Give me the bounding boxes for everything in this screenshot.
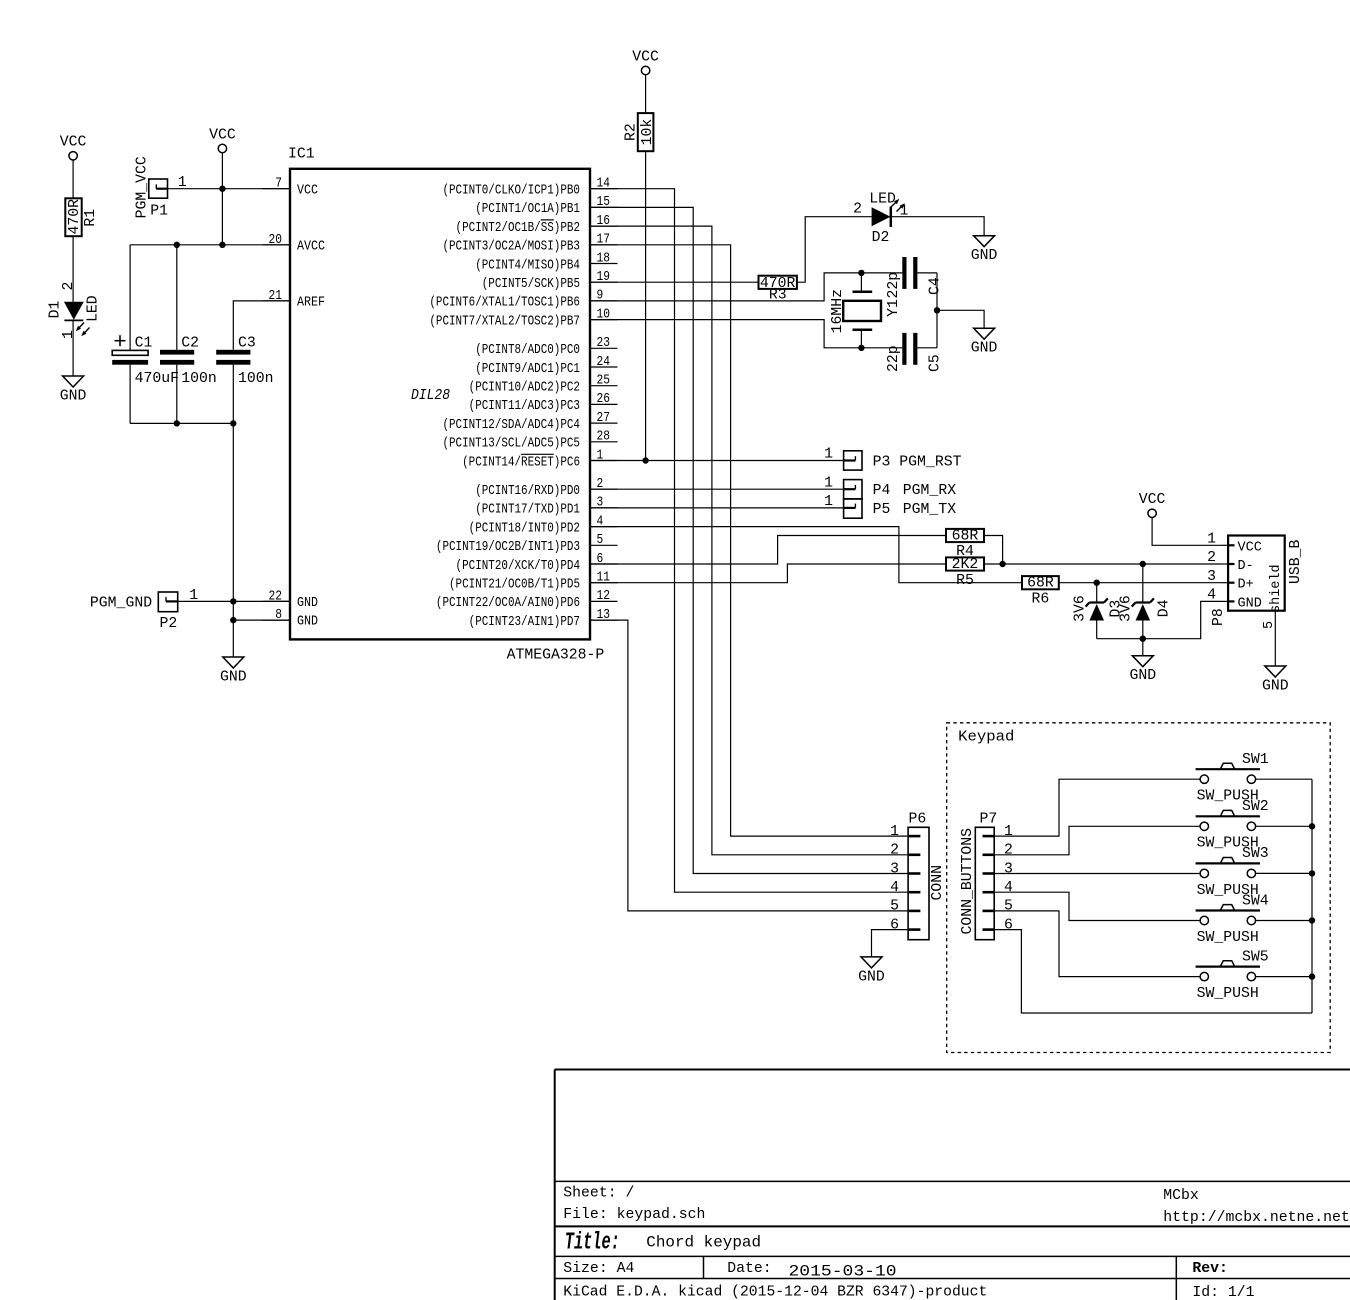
switch SW4 SW_PUSH <box>1196 893 1312 946</box>
wire PB3 to P6 pin1 <box>590 245 908 836</box>
IC1 pin 6 PD4 <box>456 552 618 574</box>
junction GND pin22 <box>230 598 236 604</box>
junction C2 top <box>174 242 180 248</box>
svg-text:(PCINT12/SDA/ADC4)PC4: (PCINT12/SDA/ADC4)PC4 <box>442 418 580 433</box>
svg-text:2: 2 <box>1207 550 1216 566</box>
IC1 pin 4 PD2 <box>469 514 618 536</box>
title block size/date <box>563 1261 896 1281</box>
svg-text:P5: P5 <box>873 502 891 518</box>
LED D1 <box>48 282 102 339</box>
svg-text:CONN: CONN <box>930 865 946 901</box>
connector P1 PGM_VCC <box>135 156 187 219</box>
svg-text:SW_PUSH: SW_PUSH <box>1197 930 1259 946</box>
wire P7 pin4 to SW4 <box>994 892 1200 920</box>
wire C4 to GND rail <box>917 272 937 274</box>
svg-text:GND: GND <box>60 389 87 405</box>
svg-text:Size: A4: Size: A4 <box>563 1261 634 1277</box>
capacitor C2 100n <box>160 336 217 388</box>
IC1 pin 13 PD7 <box>469 608 618 630</box>
svg-text:(PCINT2/OC1B/SS)PB2: (PCINT2/OC1B/SS)PB2 <box>456 221 580 236</box>
wire C3 bottom <box>232 365 234 424</box>
svg-text:(PCINT0/CLKO/ICP1)PB0: (PCINT0/CLKO/ICP1)PB0 <box>442 184 580 199</box>
resistor R5 2K2 <box>946 557 984 589</box>
IC1 pin 23 PC0 <box>475 336 617 358</box>
svg-text:D1: D1 <box>48 301 64 319</box>
junction zener gnd <box>1140 636 1146 642</box>
IC1 pin 5 PD3 <box>436 533 618 555</box>
crystal Y1 16MHz <box>830 273 902 348</box>
ground symbol (shield) <box>1262 666 1289 695</box>
IC1 pin 28 PC5 <box>442 430 617 452</box>
svg-text:P2: P2 <box>160 616 178 632</box>
svg-text:P7: P7 <box>980 812 998 828</box>
ground symbol (IC) <box>220 657 247 686</box>
wire R2 to RESET <box>645 151 647 460</box>
connector P8 USB_B <box>1207 532 1304 630</box>
wire P7 pin5 to SW5 <box>994 911 1200 977</box>
svg-text:VCC: VCC <box>297 183 318 198</box>
wire PD5 to R5 <box>590 564 946 583</box>
wire P7 pin6 to rail <box>994 930 1312 1013</box>
svg-text:22p: 22p <box>886 272 902 299</box>
wire PD1 to P5 <box>590 507 844 509</box>
svg-text:Sheet: /: Sheet: / <box>563 1186 634 1202</box>
svg-text:5: 5 <box>1004 899 1013 915</box>
wire PD4 to R4 <box>590 536 946 565</box>
svg-text:4: 4 <box>1207 588 1216 604</box>
svg-text:1: 1 <box>1207 532 1216 548</box>
svg-text:(PCINT17/TXD)PD1: (PCINT17/TXD)PD1 <box>475 503 580 518</box>
svg-text:PGM_RST: PGM_RST <box>899 455 961 471</box>
svg-text:C2: C2 <box>181 336 199 352</box>
svg-text:1: 1 <box>890 824 899 840</box>
svg-text:GND: GND <box>1129 668 1156 684</box>
svg-text:PGM_VCC: PGM_VCC <box>135 156 151 218</box>
svg-text:P1: P1 <box>150 204 168 220</box>
junction GND pin8 <box>230 617 236 623</box>
svg-text:6: 6 <box>1004 917 1013 933</box>
wire P1 to IC pin 7 <box>168 188 291 190</box>
svg-text:22: 22 <box>269 589 283 604</box>
svg-text:DIL28: DIL28 <box>411 388 450 404</box>
wire VCC to R1 <box>72 160 74 199</box>
IC1 pin 19 PB5 <box>482 270 618 292</box>
svg-text:shield: shield <box>1269 564 1284 613</box>
svg-text:SW_PUSH: SW_PUSH <box>1197 986 1259 1002</box>
svg-text:(PCINT7/XTAL2/TOSC2)PB7: (PCINT7/XTAL2/TOSC2)PB7 <box>429 314 580 329</box>
svg-text:D+: D+ <box>1238 578 1254 593</box>
svg-text:VCC: VCC <box>60 135 87 151</box>
wire D1 to GND <box>72 320 74 376</box>
IC1 pin 14 PB0 <box>442 177 617 199</box>
svg-text:R1: R1 <box>83 209 99 227</box>
svg-text:1: 1 <box>824 494 833 510</box>
svg-text:GND: GND <box>297 615 318 630</box>
svg-text:P6: P6 <box>909 812 927 828</box>
wire P2 to IC pin 22 <box>178 600 290 602</box>
ground symbol (D2) <box>971 236 998 265</box>
resistor R2 10k <box>624 113 656 151</box>
svg-text:Keypad: Keypad <box>958 729 1014 745</box>
junction crystal bottom <box>858 345 864 351</box>
svg-text:PGM_TX: PGM_TX <box>903 502 956 518</box>
wire PB1 to P6 pin3 <box>590 207 908 873</box>
svg-text:VCC: VCC <box>209 127 236 143</box>
IC1 pin 1 PC6 <box>462 448 617 470</box>
svg-text:PGM_GND: PGM_GND <box>90 596 152 612</box>
resistor R3 470R <box>759 276 797 304</box>
svg-text:R6: R6 <box>1032 592 1050 608</box>
svg-text:24: 24 <box>597 355 611 370</box>
ground symbol (crystal) <box>971 328 998 357</box>
IC1 pin 3 PD1 <box>475 496 617 518</box>
connector P6 CONN <box>890 812 946 940</box>
svg-text:12: 12 <box>597 589 611 604</box>
ground symbol (P6) <box>858 957 885 986</box>
svg-text:D2: D2 <box>872 230 890 246</box>
svg-text:2015-03-10: 2015-03-10 <box>789 1262 897 1280</box>
svg-text:SW4: SW4 <box>1242 893 1269 909</box>
zener diode D4 3V6 <box>1119 564 1173 639</box>
svg-text:GND: GND <box>858 969 885 985</box>
svg-text:CONN_BUTTONS: CONN_BUTTONS <box>960 828 976 935</box>
resistor R1 470R <box>65 198 99 236</box>
svg-text:(PCINT8/ADC0)PC0: (PCINT8/ADC0)PC0 <box>475 343 580 358</box>
wire to crystal gnd symbol <box>937 310 984 328</box>
svg-text:5: 5 <box>890 899 899 915</box>
IC1 pin 22 GND <box>263 589 319 611</box>
switch SW5 SW_PUSH <box>1196 949 1312 1002</box>
svg-text:PGM_RX: PGM_RX <box>903 483 956 499</box>
wire PB5 to R3 <box>590 281 759 283</box>
ground symbol (D1) <box>60 376 87 405</box>
svg-text:26: 26 <box>597 392 611 407</box>
wire P6 pin6 to GND <box>872 930 909 957</box>
capacitor C5 22p <box>886 333 944 372</box>
connector P3 PGM_RST <box>824 447 961 471</box>
junction VCC/AVCC rail <box>219 242 225 248</box>
wire AREF to C3 <box>233 301 290 350</box>
svg-text:Title:: Title: <box>565 1230 620 1257</box>
wire PD7 to P6 pin5 <box>590 620 908 911</box>
svg-text:C5: C5 <box>928 354 944 372</box>
wire RESET to P3 <box>590 460 844 462</box>
title block title <box>565 1230 761 1257</box>
svg-text:LED: LED <box>869 192 896 208</box>
IC1 pin 17 PB3 <box>442 233 617 255</box>
svg-text:(PCINT23/AIN1)PD7: (PCINT23/AIN1)PD7 <box>469 615 580 630</box>
svg-text:http://mcbx.netne.net: http://mcbx.netne.net <box>1163 1210 1349 1226</box>
connector P7 CONN_BUTTONS <box>960 812 1013 940</box>
IC1 pin 7 VCC <box>263 177 319 199</box>
junction crystal top <box>858 270 864 276</box>
svg-text:470R: 470R <box>67 199 83 235</box>
svg-text:1: 1 <box>1004 824 1013 840</box>
svg-text:GND: GND <box>971 341 998 357</box>
svg-text:GND: GND <box>1262 679 1289 695</box>
svg-text:23: 23 <box>597 336 611 351</box>
wire D2 to GND <box>892 217 984 236</box>
svg-text:File: keypad.sch: File: keypad.sch <box>563 1207 705 1223</box>
svg-text:3: 3 <box>1207 569 1216 585</box>
connector P2 PGM_GND <box>90 588 198 632</box>
connector P4 PGM_RX <box>824 475 956 499</box>
junction D4/D- <box>1140 561 1146 567</box>
switch SW3 SW_PUSH <box>1196 846 1312 899</box>
svg-text:3: 3 <box>890 861 899 877</box>
svg-text:4: 4 <box>890 880 899 896</box>
wire R1 to D1 <box>72 236 74 302</box>
svg-text:Date:: Date: <box>727 1261 771 1277</box>
title block company <box>1163 1188 1349 1226</box>
wire ground drop <box>232 423 234 657</box>
wire IC pin 8 <box>233 619 290 621</box>
wire C1 bottom <box>129 365 131 424</box>
wire AVCC rail <box>130 244 290 246</box>
IC1 pin 12 PD6 <box>436 589 618 611</box>
svg-text:MCbx: MCbx <box>1163 1188 1199 1204</box>
svg-text:(PCINT14/RESET)PC6: (PCINT14/RESET)PC6 <box>462 455 580 470</box>
svg-text:AVCC: AVCC <box>297 239 325 254</box>
IC1 pin 27 PC4 <box>442 411 617 433</box>
svg-text:R5: R5 <box>956 573 974 589</box>
svg-text:3V6: 3V6 <box>1119 595 1135 622</box>
svg-text:68R: 68R <box>952 529 979 545</box>
svg-text:2: 2 <box>853 202 862 218</box>
svg-text:2K2: 2K2 <box>952 557 979 573</box>
IC1 pin 20 AVCC <box>263 233 326 255</box>
LED D2 <box>853 192 908 247</box>
wire to gnd (zeners) <box>1142 639 1144 656</box>
title block sheet info <box>563 1186 705 1223</box>
svg-text:1: 1 <box>824 475 833 491</box>
svg-text:3V6: 3V6 <box>1073 595 1089 622</box>
resistor R4 68R <box>946 529 984 561</box>
junction P1/VCC <box>219 186 225 192</box>
IC1 pin 9 PB6 <box>429 289 617 311</box>
junction C2 bottom <box>174 420 180 426</box>
wire zener gnd rail <box>1097 601 1221 638</box>
wire switch rail <box>1311 779 1313 1013</box>
svg-text:D-: D- <box>1238 559 1254 574</box>
svg-text:470uF: 470uF <box>135 371 179 387</box>
wire C2 bottom <box>176 365 178 424</box>
svg-text:GND: GND <box>1238 596 1262 611</box>
svg-text:10k: 10k <box>640 119 656 146</box>
wire PD2 to R6 <box>590 527 1022 583</box>
svg-text:(PCINT4/MISO)PB4: (PCINT4/MISO)PB4 <box>475 258 580 273</box>
capacitor C4 22p <box>886 257 944 299</box>
wire XTAL1 to crystal <box>590 273 902 301</box>
svg-text:(PCINT22/OC0A/AIN0)PD6: (PCINT22/OC0A/AIN0)PD6 <box>436 596 580 611</box>
svg-text:1: 1 <box>61 330 77 339</box>
IC1 pin 21 AREF <box>263 289 326 311</box>
svg-text:18: 18 <box>597 251 611 266</box>
power symbol VCC (R2) <box>632 49 659 74</box>
svg-text:(PCINT13/SCL/ADC5)PC5: (PCINT13/SCL/ADC5)PC5 <box>442 437 580 452</box>
wire P7 pin1 to SW1 <box>994 779 1200 836</box>
wire crystal cap gnd <box>936 273 938 348</box>
svg-text:(PCINT1/OC1A)PB1: (PCINT1/OC1A)PB1 <box>475 202 580 217</box>
switch SW2 SW_PUSH <box>1196 799 1312 852</box>
svg-text:3: 3 <box>1004 861 1013 877</box>
svg-text:USB_B: USB_B <box>1288 539 1304 584</box>
wire PB2 to P6 pin2 <box>590 226 908 855</box>
svg-text:Y1: Y1 <box>886 299 902 317</box>
svg-text:Chord keypad: Chord keypad <box>646 1234 761 1252</box>
svg-text:SW5: SW5 <box>1242 949 1269 965</box>
svg-text:GND: GND <box>220 670 247 686</box>
svg-text:SW3: SW3 <box>1242 846 1269 862</box>
title block frame <box>555 1070 1350 1300</box>
capacitor C3 100n <box>216 336 273 388</box>
svg-text:28: 28 <box>597 430 611 445</box>
svg-text:Rev:: Rev: <box>1192 1261 1228 1277</box>
svg-text:(PCINT19/OC2B/INT1)PD3: (PCINT19/OC2B/INT1)PD3 <box>436 540 580 555</box>
wire VCC to R2 <box>645 74 647 113</box>
svg-text:C4: C4 <box>928 277 944 295</box>
svg-text:(PCINT18/INT0)PD2: (PCINT18/INT0)PD2 <box>469 521 580 536</box>
svg-text:IC1: IC1 <box>288 147 315 163</box>
op-amp U1 IC1 ATMEGA328-P body <box>288 147 604 664</box>
svg-text:16MHz: 16MHz <box>830 289 846 333</box>
svg-text:21: 21 <box>269 289 283 304</box>
wire C1 branch <box>129 245 131 351</box>
svg-text:2: 2 <box>61 282 77 291</box>
svg-text:P8: P8 <box>1211 608 1227 626</box>
svg-text:SW1: SW1 <box>1242 752 1269 768</box>
ground symbol (zeners) <box>1129 656 1156 685</box>
switch SW1 SW_PUSH <box>1196 752 1312 805</box>
svg-text:C1: C1 <box>135 336 153 352</box>
title block kicad version <box>563 1284 987 1300</box>
title block rev <box>1192 1261 1228 1277</box>
power symbol VCC (R1 top) <box>60 135 87 160</box>
svg-text:VCC: VCC <box>632 49 659 65</box>
junction RESET <box>642 457 648 463</box>
svg-text:5: 5 <box>597 533 604 548</box>
svg-text:6: 6 <box>890 917 899 933</box>
wire VCC drop <box>221 152 223 244</box>
svg-text:VCC: VCC <box>1139 492 1166 508</box>
junction SW5 rail <box>1309 973 1315 979</box>
junction D3/D+ <box>1094 580 1100 586</box>
svg-text:(PCINT16/RXD)PD0: (PCINT16/RXD)PD0 <box>475 484 580 499</box>
junction crystal gnd <box>934 307 940 313</box>
power symbol VCC (USB) <box>1139 492 1166 517</box>
svg-text:(PCINT20/XCK/T0)PD4: (PCINT20/XCK/T0)PD4 <box>456 559 580 574</box>
IC1 pin 25 PC2 <box>469 374 618 396</box>
wire USB pin5 shield <box>1274 611 1276 666</box>
IC1 pin 18 PB4 <box>475 251 617 273</box>
svg-text:25: 25 <box>597 374 611 389</box>
svg-text:2: 2 <box>1004 843 1013 859</box>
junction R4/D- <box>999 561 1005 567</box>
svg-text:(PCINT6/XTAL1/TOSC1)PB6: (PCINT6/XTAL1/TOSC1)PB6 <box>429 296 580 311</box>
zener diode D3 3V6 <box>1073 583 1125 639</box>
svg-text:P4: P4 <box>873 483 891 499</box>
svg-text:D4: D4 <box>1157 599 1173 617</box>
wire XTAL2 to crystal <box>590 320 902 348</box>
svg-text:GND: GND <box>971 248 998 264</box>
svg-text:C3: C3 <box>238 336 256 352</box>
power symbol VCC (P1) <box>209 127 236 152</box>
svg-text:(PCINT5/SCK)PB5: (PCINT5/SCK)PB5 <box>482 277 580 292</box>
svg-text:P3: P3 <box>873 455 891 471</box>
wire VCC to USB pin1 <box>1152 517 1221 545</box>
svg-text:68R: 68R <box>1027 576 1054 592</box>
wire R3 to D2 <box>797 217 872 283</box>
IC1 pin 11 PD5 <box>449 571 618 593</box>
IC1 pin 26 PC3 <box>469 392 618 414</box>
svg-text:(PCINT21/OC0B/T1)PD5: (PCINT21/OC0B/T1)PD5 <box>449 578 580 593</box>
IC1 pin 15 PB1 <box>475 195 617 217</box>
IC1 pin 2 PD0 <box>475 477 617 499</box>
IC1 pin 24 PC1 <box>475 355 617 377</box>
wire PD0 to P4 <box>590 488 844 490</box>
capacitor C1 470uF <box>112 335 179 387</box>
IC1 pin 10 PB7 <box>429 307 617 329</box>
wire P7 pin3 to SW3 <box>994 873 1200 875</box>
svg-text:SW2: SW2 <box>1242 799 1269 815</box>
svg-text:4: 4 <box>1004 880 1013 896</box>
wire P7 pin2 to SW2 <box>994 826 1200 855</box>
resistor R6 68R <box>1022 576 1059 608</box>
title block id <box>1192 1285 1254 1300</box>
svg-text:(PCINT3/OC2A/MOSI)PB3: (PCINT3/OC2A/MOSI)PB3 <box>442 240 580 255</box>
junction SW2 rail <box>1309 823 1315 829</box>
wire C5 to GND rail <box>917 347 937 349</box>
wire PB0 to P6 pin4 <box>590 189 908 893</box>
svg-text:2: 2 <box>890 843 899 859</box>
svg-text:7: 7 <box>275 177 282 192</box>
svg-text:LED: LED <box>86 295 102 322</box>
junction C3 rail <box>230 420 236 426</box>
junction SW3 rail <box>1309 870 1315 876</box>
svg-text:KiCad E.D.A. kicad (2015-12-0: KiCad E.D.A. kicad (2015-12-04 BZR 6347)… <box>563 1284 987 1300</box>
IC1 pin 16 PB2 <box>456 214 618 236</box>
svg-text:100n: 100n <box>238 371 274 387</box>
svg-text:20: 20 <box>269 233 283 248</box>
wire C2 branch <box>176 245 178 350</box>
svg-text:27: 27 <box>597 411 611 426</box>
svg-text:100n: 100n <box>181 371 217 387</box>
wire capacitor ground rail <box>130 422 233 424</box>
wire R6 to D+ <box>1059 582 1221 584</box>
svg-text:(PCINT10/ADC2)PC2: (PCINT10/ADC2)PC2 <box>469 381 580 396</box>
keypad enclosure box <box>947 723 1330 1053</box>
IC1 pin 8 GND <box>263 608 319 630</box>
connector P5 PGM_TX <box>824 494 956 518</box>
wire D- net <box>984 563 1221 565</box>
svg-text:1: 1 <box>824 447 833 463</box>
svg-text:Id: 1/1: Id: 1/1 <box>1192 1285 1254 1300</box>
svg-text:22p: 22p <box>886 345 902 372</box>
wire R4 to D- net <box>984 536 1003 565</box>
svg-text:VCC: VCC <box>1238 540 1262 555</box>
svg-text:(PCINT9/ADC1)PC1: (PCINT9/ADC1)PC1 <box>475 362 580 377</box>
svg-text:8: 8 <box>275 608 282 623</box>
svg-text:AREF: AREF <box>297 296 325 311</box>
svg-text:ATMEGA328-P: ATMEGA328-P <box>507 647 605 663</box>
svg-text:R2: R2 <box>624 123 640 141</box>
svg-text:GND: GND <box>297 596 318 611</box>
junction SW4 rail <box>1309 917 1315 923</box>
svg-text:(PCINT11/ADC3)PC3: (PCINT11/ADC3)PC3 <box>469 399 580 414</box>
